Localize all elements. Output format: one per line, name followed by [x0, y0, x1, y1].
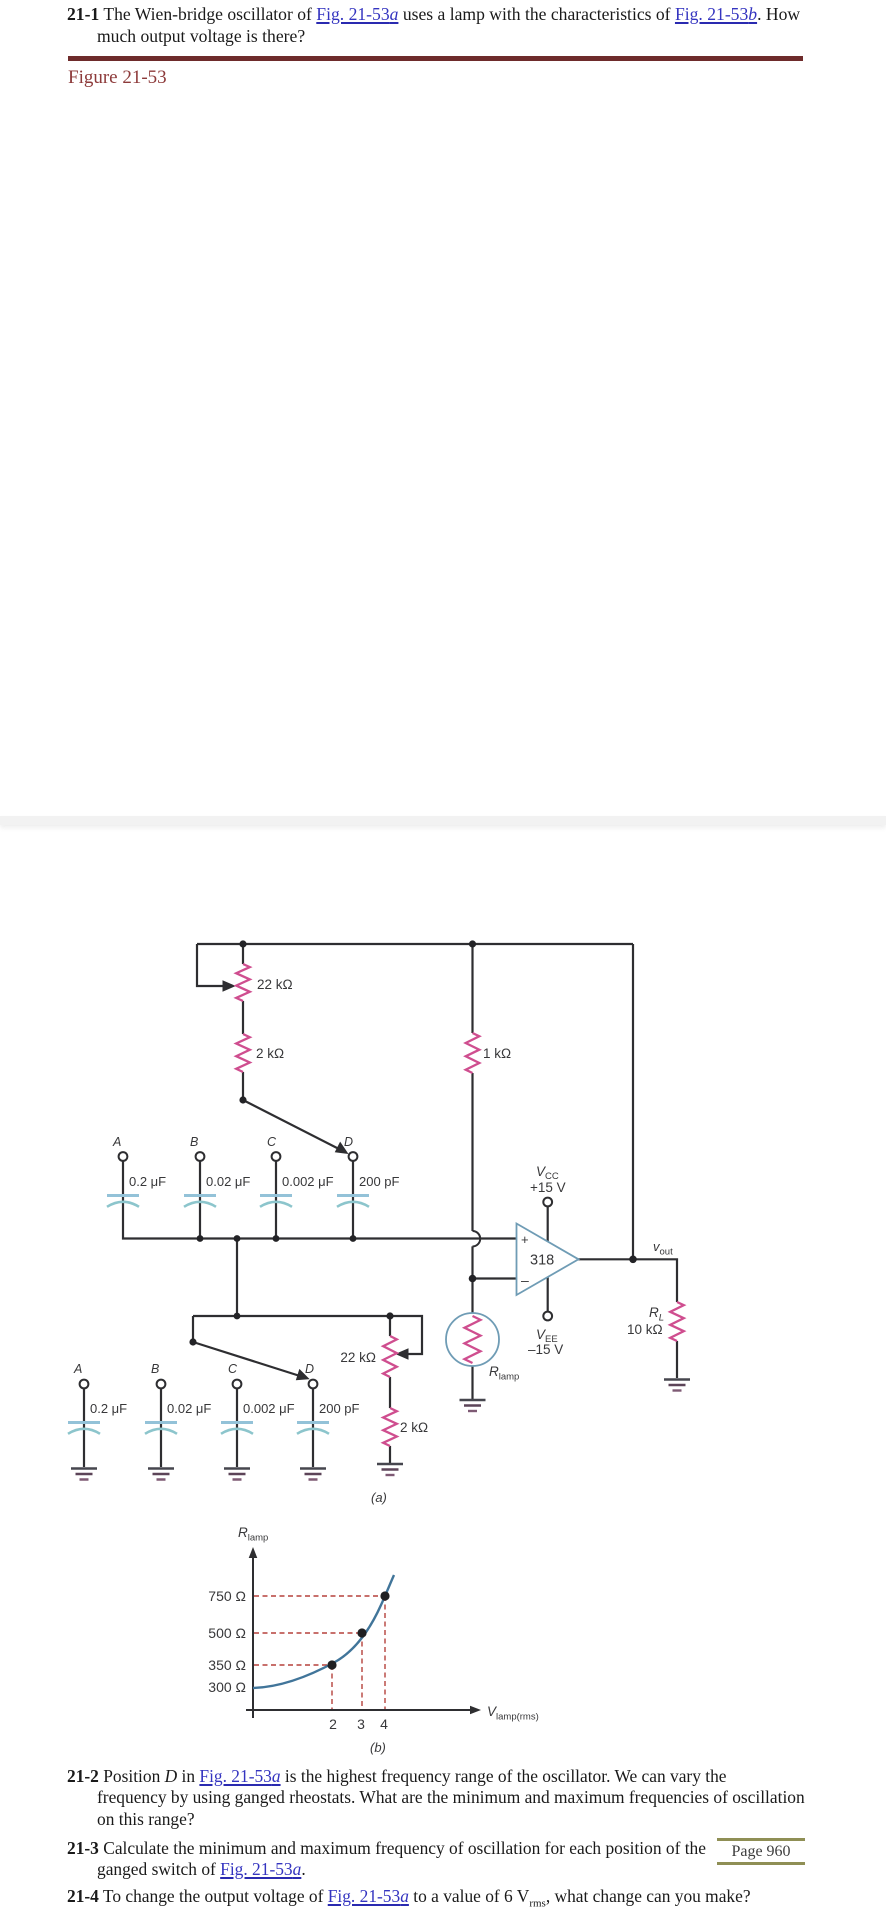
svg-text:C: C — [228, 1362, 238, 1376]
svg-text:0.2 μF: 0.2 μF — [129, 1174, 166, 1189]
svg-text:3: 3 — [357, 1716, 365, 1732]
svg-text:D: D — [344, 1135, 353, 1149]
svg-text:2: 2 — [329, 1716, 337, 1732]
page-break gray band — [0, 816, 886, 825]
svg-text:200 pF: 200 pF — [319, 1401, 360, 1416]
capacitors lower: flat plates — [68, 1421, 329, 1424]
svg-text:C: C — [267, 1135, 277, 1149]
paragraph 21-3 — [67, 1837, 706, 1859]
GRAPH: y-axis — [246, 1554, 474, 1718]
resistor RL — [670, 1302, 684, 1341]
wiper arrow switch 1 — [193, 981, 408, 1380]
cap value labels upper — [90, 1174, 400, 1416]
arrowhead: lower rheostat — [397, 1349, 409, 1359]
svg-text:B: B — [190, 1135, 198, 1149]
svg-text:300 Ω: 300 Ω — [208, 1679, 246, 1695]
GRAPH: y-axis arrowhead — [249, 1547, 258, 1558]
paragraph 21-4 — [67, 1885, 751, 1914]
svg-text:D: D — [305, 1362, 314, 1376]
svg-text:10 kΩ: 10 kΩ — [627, 1322, 663, 1337]
resistor 22k upper — [236, 964, 684, 1446]
resistor 2k lower — [383, 1408, 397, 1446]
resistor 1k — [466, 1033, 480, 1073]
capacitors lower: curved plates — [68, 1429, 329, 1434]
svg-text:22 kΩ: 22 kΩ — [340, 1350, 376, 1365]
switch contacts lower A B C D — [80, 1380, 89, 1389]
figure caption — [68, 67, 167, 89]
wire: upper cap drops B C D — [200, 1161, 353, 1239]
resistor 22k lower — [383, 1336, 397, 1377]
GRAPH: red dashed guides — [254, 1596, 385, 1709]
wiper arrow switch 2 — [193, 1342, 300, 1376]
GRAPH: lamp curve — [253, 1575, 394, 1688]
svg-text:200 pF: 200 pF — [359, 1174, 400, 1189]
wire: Vcc stub — [547, 1207, 549, 1242]
svg-text:500 Ω: 500 Ω — [208, 1625, 246, 1641]
wire: lower-left wiper drop — [192, 1316, 194, 1342]
ground under lamp — [71, 1380, 690, 1480]
svg-text:22 kΩ: 22 kΩ — [257, 977, 293, 992]
svg-text:A: A — [112, 1135, 121, 1149]
svg-text:2 kΩ: 2 kΩ — [256, 1046, 284, 1061]
GRAPH: x tick labels — [329, 1716, 388, 1732]
svg-text:RL: RL — [649, 1305, 664, 1324]
svg-text:Rlamp: Rlamp — [489, 1364, 519, 1383]
capacitors upper: flat plates — [107, 1194, 369, 1197]
svg-text:0.002 μF: 0.002 μF — [243, 1401, 295, 1416]
svg-text:750 Ω: 750 Ω — [208, 1588, 246, 1604]
wire: lower horizontal with loop to rheostat arrow — [193, 1316, 422, 1354]
ground under RL — [664, 1378, 690, 1381]
svg-text:4: 4 — [380, 1716, 388, 1732]
wire: 1k branch with hop over + input — [471, 944, 473, 1399]
lamp filament zigzag — [465, 1316, 481, 1363]
heading rule — [68, 56, 803, 61]
wire: top rail — [197, 943, 633, 945]
svg-text:+: + — [521, 1232, 529, 1247]
wire: lower 22k/2k branch stubs — [389, 1316, 391, 1464]
svg-text:B: B — [151, 1362, 159, 1376]
GRAPH: x-axis — [246, 1709, 474, 1711]
labels A B C D upper — [73, 1135, 353, 1376]
resistor 2k upper — [236, 1034, 250, 1072]
wire: inverting input — [473, 1277, 518, 1279]
wire: rheostat arrow feed (left drop) — [197, 944, 224, 986]
GRAPH: x-axis arrowhead — [470, 1706, 481, 1715]
svg-text:0.002 μF: 0.002 μF — [282, 1174, 334, 1189]
wire: bus drop to lower network — [236, 1239, 238, 1317]
wire: 22k/2k branch stubs — [242, 944, 244, 1100]
lamp circle — [446, 1313, 499, 1366]
svg-text:318: 318 — [530, 1253, 554, 1269]
svg-text:0.02 μF: 0.02 μF — [206, 1174, 250, 1189]
op-amp 318 — [517, 1224, 579, 1296]
GRAPH: y tick labels — [208, 1588, 246, 1695]
svg-text:350 Ω: 350 Ω — [208, 1657, 246, 1673]
svg-text:+15 V: +15 V — [530, 1180, 566, 1195]
wire: capacitor bus to + input — [123, 1161, 517, 1239]
wire: hop arc — [473, 1231, 481, 1246]
svg-text:–: – — [521, 1272, 529, 1288]
arrowhead: upper rheostat — [223, 981, 235, 991]
page number box — [717, 1838, 805, 1865]
capacitors upper: curved plates — [107, 1202, 369, 1207]
svg-text:(b): (b) — [370, 1740, 386, 1755]
GRAPH: data points — [327, 1591, 389, 1669]
svg-text:A: A — [73, 1362, 82, 1376]
svg-text:0.2 μF: 0.2 μF — [90, 1401, 127, 1416]
svg-text:2 kΩ: 2 kΩ — [400, 1420, 428, 1435]
wire: Vee stub — [547, 1278, 549, 1312]
terminal Vee — [543, 1312, 552, 1321]
svg-text:vout: vout — [653, 1239, 673, 1258]
svg-text:Vlamp(rms): Vlamp(rms) — [487, 1704, 539, 1723]
wire: right rail down to op-amp output — [632, 944, 634, 1259]
grounds under lower caps A B C D — [71, 1467, 326, 1470]
wire: op-amp output to RL — [578, 1259, 677, 1378]
svg-text:Rlamp: Rlamp — [238, 1525, 268, 1544]
svg-text:0.02 μF: 0.02 μF — [167, 1401, 211, 1416]
paragraph 21-1 — [67, 3, 800, 25]
ground under lower 2k — [377, 1463, 403, 1466]
svg-text:(a): (a) — [371, 1490, 387, 1505]
junction dots — [189, 940, 636, 1345]
switch contacts upper A B C D — [80, 1152, 358, 1388]
paragraph 21-2 — [67, 1765, 727, 1787]
terminal Vcc — [543, 1198, 552, 1207]
svg-text:1 kΩ: 1 kΩ — [483, 1046, 511, 1061]
wire: lower cap drops — [84, 1389, 313, 1468]
svg-text:–15 V: –15 V — [528, 1342, 563, 1357]
